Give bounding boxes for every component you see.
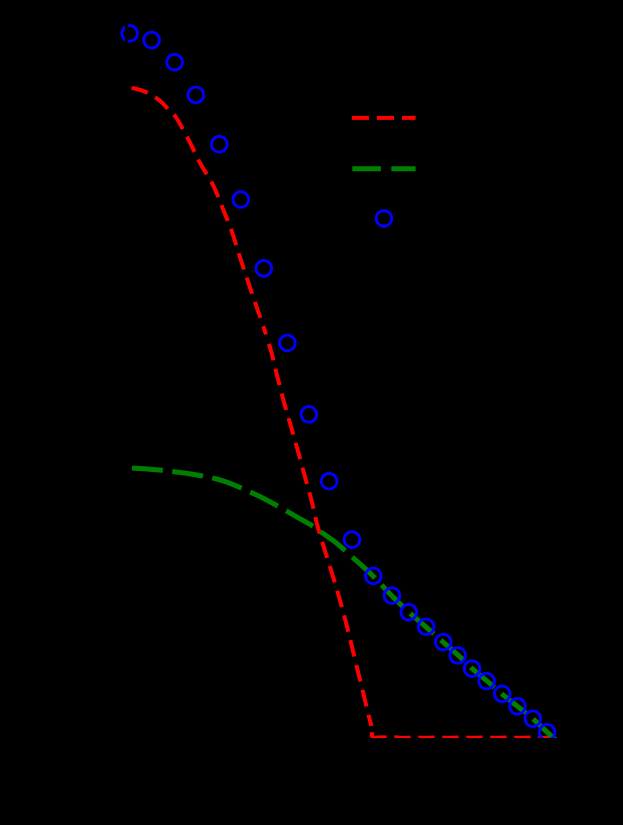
green long-dashed curve (exponential-decay model) xyxy=(132,468,556,740)
legend green dashed sample xyxy=(352,166,415,171)
data marker 12 xyxy=(366,568,382,584)
data markers (blue circles) xyxy=(122,26,555,740)
data marker 8 xyxy=(280,335,296,351)
data marker 5 xyxy=(212,136,228,152)
data marker 20 xyxy=(494,686,510,702)
data marker 2 xyxy=(144,32,160,48)
data marker 17 xyxy=(450,648,466,664)
data marker 6 xyxy=(233,192,249,208)
data marker 11 xyxy=(344,532,360,548)
data marker 9 xyxy=(301,407,317,423)
left axis spine (black, overdraws first marker) xyxy=(125,15,128,745)
bottom axis spine (black, overdraws red floor and last marker) xyxy=(118,738,564,742)
data marker 4 xyxy=(188,87,204,103)
data marker 15 xyxy=(418,619,434,635)
data marker 21 xyxy=(510,699,526,715)
data marker 1 xyxy=(122,26,138,42)
data marker 16 xyxy=(435,634,451,650)
red curve floor segment xyxy=(370,735,550,740)
data marker 18 xyxy=(464,661,480,677)
data marker 23 xyxy=(539,724,555,740)
data marker 13 xyxy=(384,588,400,604)
data marker 7 xyxy=(256,261,272,277)
legend red dashed sample xyxy=(352,116,416,120)
red dashed curve lower section xyxy=(268,342,371,726)
data marker 3 xyxy=(167,54,183,70)
data marker 10 xyxy=(321,473,337,489)
data marker 22 xyxy=(525,711,541,727)
red dashed curve (Gaussian-decay model) xyxy=(132,88,266,335)
data marker 19 xyxy=(479,673,495,689)
legend data marker sample xyxy=(376,211,392,227)
red curve corner join blob xyxy=(372,732,373,736)
data marker 14 xyxy=(401,604,417,620)
